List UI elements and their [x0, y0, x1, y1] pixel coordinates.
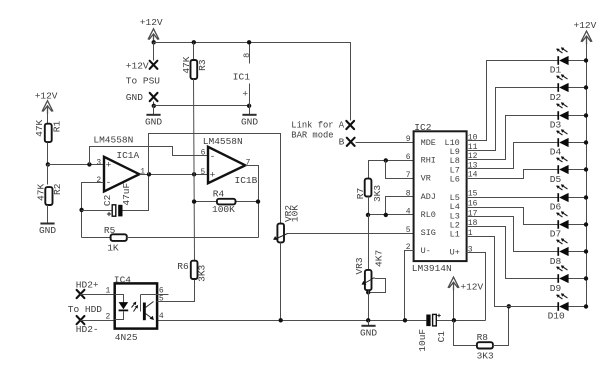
svg-text:To PSU: To PSU — [126, 76, 161, 87]
wiper arrow VR3 — [363, 278, 375, 285]
svg-text:SIG: SIG — [421, 228, 436, 238]
wire pin5 to R6 — [157, 279, 195, 302]
wire VR3 wiper loop — [369, 279, 386, 293]
resistor R5 1K — [82, 237, 111, 239]
wire pin13 to D4 — [467, 143, 551, 169]
svg-text:10uF: 10uF — [417, 329, 428, 352]
node junction C2 left — [79, 208, 83, 212]
resistor R7 3K3 — [365, 179, 372, 197]
svg-text:D10: D10 — [548, 311, 565, 322]
wire pin17 to D8 — [467, 217, 551, 252]
node junction R8/D10 — [507, 304, 511, 308]
node junction +12V/bus — [452, 318, 456, 322]
wiper arrow VR2 — [275, 234, 288, 240]
wire VR2 bottom to gnd bus — [280, 243, 282, 321]
LED D9 — [550, 265, 588, 294]
svg-text:R4: R4 — [213, 188, 225, 199]
svg-text:D1: D1 — [550, 65, 562, 76]
svg-text:U+: U+ — [450, 248, 460, 258]
svg-text:3K3: 3K3 — [477, 351, 494, 362]
svg-text:+12V: +12V — [126, 60, 149, 71]
svg-text:D7: D7 — [550, 229, 561, 240]
svg-text:4K7: 4K7 — [373, 250, 384, 267]
node junction pin3 riser — [87, 162, 91, 166]
svg-text:+12V: +12V — [140, 17, 163, 28]
svg-text:R5: R5 — [104, 225, 116, 236]
wire stem to rail — [153, 39, 155, 43]
svg-text:7: 7 — [406, 171, 411, 180]
svg-text:C2: C2 — [102, 194, 113, 206]
wire U+ pin3 loop — [467, 253, 486, 321]
svg-text:6: 6 — [406, 153, 411, 162]
wire U- to gnd bus — [405, 251, 414, 321]
svg-text:LM4558N: LM4558N — [203, 136, 243, 147]
LED D8 — [550, 238, 588, 267]
op-amp IC1B — [208, 147, 245, 183]
svg-text:GND: GND — [126, 92, 143, 103]
node junction R7/RLO — [366, 213, 370, 217]
LED inside IC4 — [115, 295, 124, 320]
wire LED rail — [586, 42, 588, 307]
svg-text:LM4558N: LM4558N — [93, 135, 133, 146]
svg-text:+: + — [210, 170, 216, 181]
wire C2 right to output — [123, 175, 149, 211]
node junction R4 right — [256, 199, 260, 203]
ground (right) — [249, 106, 251, 115]
svg-text:3K3: 3K3 — [197, 264, 208, 281]
svg-text:17: 17 — [468, 210, 478, 219]
wire IC1 pin8 stub from rail — [249, 43, 251, 106]
power symbol +12V (R1) — [42, 101, 53, 114]
svg-text:47K: 47K — [181, 56, 192, 73]
svg-text:R6: R6 — [177, 261, 189, 272]
node junction VR3 bottom — [366, 290, 370, 294]
wire node to pin3 — [48, 164, 104, 166]
LED D5 — [550, 156, 588, 185]
wire RLO pin4 — [369, 214, 414, 216]
svg-text:D3: D3 — [550, 119, 562, 130]
node junction (153.7,42.3) — [152, 40, 156, 44]
wire pin1 — [81, 294, 115, 296]
resistor R6 3K3 — [191, 261, 198, 279]
svg-text:2: 2 — [96, 176, 101, 185]
svg-text:D4: D4 — [550, 147, 562, 158]
svg-text:VR: VR — [421, 173, 431, 183]
svg-text:R7: R7 — [355, 188, 366, 199]
LED D6 — [550, 184, 588, 212]
svg-text:5: 5 — [200, 168, 205, 177]
svg-text:8: 8 — [242, 53, 252, 58]
svg-text:Link for A: Link for A — [291, 120, 345, 130]
svg-text:4N25: 4N25 — [115, 332, 138, 343]
wire gnd bus bottom — [157, 320, 486, 322]
svg-text:9: 9 — [406, 135, 411, 144]
resistor R8 3K3 — [454, 321, 477, 346]
node junction divider — [46, 162, 50, 166]
node X terminal HD2+ — [77, 290, 85, 298]
resistor R2 47K — [47, 165, 49, 185]
node X terminal HD2- — [77, 316, 85, 324]
svg-text:3: 3 — [96, 159, 101, 168]
wire pin14 to D5 — [467, 170, 551, 179]
LED D2 — [550, 74, 588, 103]
svg-text:B: B — [339, 136, 345, 147]
wire pin10 to D1 — [467, 61, 551, 141]
svg-text:HD2+: HD2+ — [76, 280, 99, 291]
node junction VR2/bus — [279, 318, 283, 322]
svg-text:IC1: IC1 — [233, 72, 250, 83]
wire B to MDE pin9 — [356, 142, 414, 144]
svg-text:LM3914N: LM3914N — [412, 263, 452, 274]
wire gnd bus — [154, 105, 250, 107]
wire output pin1 to IC1B pin5 — [140, 174, 208, 176]
svg-text:-: - — [210, 151, 216, 162]
LED D4 — [550, 129, 588, 157]
svg-text:IC2: IC2 — [414, 122, 431, 133]
node X terminal B — [347, 138, 355, 146]
wire pin3 node to IC1B pin6 — [90, 147, 208, 165]
wire output to VR2 top — [149, 134, 281, 224]
LED D10 — [548, 293, 589, 321]
wire pin2 — [81, 320, 115, 322]
svg-text:R1: R1 — [52, 121, 63, 133]
node junction VR3/bus — [366, 318, 370, 322]
wire VR2 wiper to SIG — [288, 233, 414, 235]
resistor R4 100K — [195, 201, 259, 203]
ground (left) — [153, 106, 155, 115]
phototransistor inside IC4 — [141, 295, 157, 312]
wire R8 to D10 line — [493, 307, 509, 346]
svg-text:L6: L6 — [450, 174, 460, 184]
wire ADJ pin8 riser — [386, 197, 414, 215]
svg-text:1: 1 — [105, 287, 110, 296]
svg-text:+: + — [242, 88, 248, 99]
node junction output/R-line — [192, 172, 196, 176]
node X terminal A — [346, 121, 354, 129]
svg-text:1: 1 — [140, 167, 145, 176]
potentiometer VR2 10K — [277, 224, 284, 243]
svg-text:MDE: MDE — [421, 138, 436, 148]
svg-text:D8: D8 — [550, 256, 562, 267]
svg-text:10K: 10K — [290, 205, 301, 222]
svg-text:100K: 100K — [212, 204, 235, 215]
svg-text:IC1A: IC1A — [116, 150, 139, 161]
svg-text:4: 4 — [159, 312, 164, 321]
wire C2 left — [82, 210, 112, 212]
svg-text:ADJ: ADJ — [421, 192, 436, 202]
resistor R1 47K — [45, 124, 52, 142]
svg-text:To HDD: To HDD — [68, 304, 103, 315]
svg-text:+: + — [106, 160, 112, 171]
wire output pin7 down — [246, 166, 259, 238]
wire R3 down to R6 — [194, 79, 195, 261]
svg-text:U-: U- — [421, 246, 431, 256]
svg-text:R3: R3 — [197, 59, 208, 71]
node junction output/C2 — [147, 172, 151, 176]
svg-text:IC1B: IC1B — [235, 175, 258, 186]
svg-text:13: 13 — [468, 161, 478, 170]
node X terminal +12V To PSU — [150, 61, 158, 69]
wire pin15 to D6 — [467, 197, 551, 199]
IC2 box — [414, 131, 467, 261]
svg-text:R8: R8 — [477, 332, 489, 343]
node X terminal GND PSU — [150, 93, 158, 101]
wire pin1 to D10 — [467, 237, 551, 307]
svg-text:VR3: VR3 — [354, 257, 365, 274]
node junction U-/bus — [403, 318, 407, 322]
svg-text:IC4: IC4 — [114, 274, 131, 285]
svg-text:D2: D2 — [550, 92, 562, 103]
node junction rail at IC1 — [247, 40, 251, 44]
ground (bus) — [368, 321, 370, 326]
wire RLO node to VR3 — [368, 215, 370, 270]
wire VR pin7 riser — [386, 161, 414, 179]
svg-text:D5: D5 — [550, 174, 562, 185]
wire VR3 to gnd bus — [368, 291, 370, 321]
svg-text:1K: 1K — [107, 242, 119, 253]
svg-text:HD2-: HD2- — [76, 324, 99, 335]
svg-text:47K: 47K — [34, 119, 45, 136]
svg-text:L1: L1 — [450, 229, 460, 239]
node junction RHI/VR — [384, 158, 388, 162]
svg-text:47uF: 47uF — [121, 183, 132, 206]
svg-text:2: 2 — [105, 313, 110, 322]
svg-text:+12V: +12V — [574, 20, 597, 31]
svg-text:6: 6 — [201, 149, 206, 158]
wire stub down to PSU X — [153, 43, 155, 61]
node junction ADJ/RLO — [384, 213, 388, 217]
wire pin11 to D2 — [467, 88, 551, 151]
svg-text:C1: C1 — [436, 331, 447, 343]
resistor R3 47K — [192, 40, 196, 44]
svg-text:BAR mode: BAR mode — [291, 130, 333, 140]
svg-text:+12V: +12V — [460, 282, 483, 293]
wire R5 right to IC1B loop — [127, 237, 259, 239]
svg-text:-: - — [106, 177, 112, 188]
ground (R2) — [47, 205, 49, 223]
power symbol +12V (top) — [148, 29, 159, 42]
opto light arrows — [132, 303, 138, 312]
LED D7 — [550, 211, 588, 239]
svg-text:R2: R2 — [52, 183, 63, 195]
wire +12V to bus — [453, 288, 455, 321]
node junction gnd bus right — [247, 104, 251, 108]
node junction R4 left — [192, 199, 196, 203]
wire pin16 to D7 — [467, 208, 551, 225]
capacitor C1 10uF — [426, 315, 430, 327]
wire to R1 — [47, 111, 49, 124]
wire R1 to node — [47, 143, 49, 165]
potentiometer VR3 4K7 — [365, 270, 372, 290]
wire pin2 feedback — [82, 183, 104, 238]
power symbol +12V (LED rail) — [581, 31, 592, 44]
svg-text:D9: D9 — [550, 283, 562, 294]
wire RHI pin6 — [369, 161, 414, 179]
wire +12V rail to link corner — [154, 43, 351, 121]
svg-text:8: 8 — [406, 190, 411, 199]
node junction gnd bus left — [152, 104, 156, 108]
op-amp IC1A — [104, 157, 139, 192]
svg-text:RL0: RL0 — [421, 210, 436, 220]
capacitor C2 47uF — [112, 205, 116, 216]
svg-text:+12V: +12V — [35, 91, 58, 102]
svg-text:10: 10 — [468, 134, 478, 143]
svg-text:D6: D6 — [550, 201, 562, 212]
svg-text:5: 5 — [406, 226, 411, 235]
wire R7 bottom to RLO — [368, 197, 370, 215]
LED D3 — [550, 102, 588, 130]
wire X to gnd bus — [153, 102, 155, 106]
wire pin18 to D9 — [467, 227, 551, 279]
svg-text:4: 4 — [406, 207, 411, 216]
svg-text:3K3: 3K3 — [372, 185, 383, 202]
power symbol +12V (mid) — [448, 277, 459, 290]
LED D1 — [550, 47, 588, 75]
svg-text:RHI: RHI — [421, 156, 436, 166]
svg-text:47K: 47K — [35, 184, 46, 201]
wire pin12 to D3 — [467, 116, 551, 160]
IC4 box — [115, 283, 157, 328]
